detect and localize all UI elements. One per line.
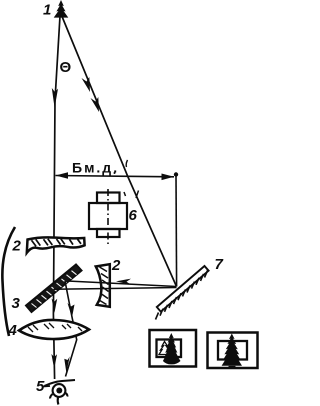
lens 4 (large horizontal, hatched): [19, 320, 89, 339]
arrowhead on axis upper: [52, 88, 58, 108]
svg-text:3: 3: [12, 295, 21, 312]
lens 2 (upper horizontal, hatched): [27, 237, 85, 252]
mirror 7 (plate with hatch comb): [156, 266, 209, 320]
axis wire (vertical ray from object): [53, 16, 60, 379]
arrowhead on reflected ray mid: [68, 303, 75, 318]
ray mirror7 to mirror3 lower: [54, 288, 177, 290]
ray mirror7 to mirror3 upper: [68, 281, 177, 287]
eye 5: [45, 380, 76, 405]
axis of component 6 (dash-dot): [107, 189, 109, 246]
semitransparent mirror 3 (hatched diagonal plate): [26, 265, 82, 313]
arrowhead on axis below lens 4: [51, 354, 57, 369]
svg-text:2: 2: [12, 238, 22, 255]
reflected ray mirror3 down to eye: [65, 281, 77, 377]
dash after 5: [43, 385, 50, 388]
svg-text:Бм.д.: Бм.д.: [72, 160, 119, 176]
modulator component 6: [89, 193, 127, 238]
arrowhead on upper ray (pointing left): [116, 279, 131, 285]
screen box left (split image): [150, 330, 197, 367]
small half tree outline in left screen: [159, 342, 171, 355]
big solid tree in right screen: [222, 334, 242, 366]
arrowhead on axis below mirror 3: [52, 299, 58, 314]
svg-text:Θ: Θ: [60, 59, 72, 76]
barb on diagonal: [136, 191, 139, 199]
svg-text:6: 6: [129, 207, 138, 224]
arrowhead on reflected ray end: [64, 357, 69, 374]
arrowhead 1 on diagonal: [82, 77, 91, 92]
ray from object to mirror 7 (diagonal): [61, 14, 177, 287]
solid tree in left screen: [164, 333, 178, 357]
svg-text:1: 1: [43, 2, 51, 19]
screen box right (aligned image): [208, 333, 258, 369]
left brace: [2, 227, 15, 336]
lens 2 (right vertical, hatched): [96, 264, 110, 307]
small tick near diagonal: [126, 160, 127, 167]
dimension line Бм.д.: [56, 176, 175, 177]
right vertical wire down to mirror 7: [175, 175, 178, 287]
arrowhead 2 on diagonal: [91, 97, 100, 112]
svg-text:7: 7: [215, 256, 224, 273]
node dot at top of right vertical wire: [174, 172, 178, 176]
tick mark near comp 6: [124, 192, 126, 196]
svg-text:2: 2: [111, 257, 121, 274]
object tree 1 (light source / distant object): [54, 0, 69, 18]
